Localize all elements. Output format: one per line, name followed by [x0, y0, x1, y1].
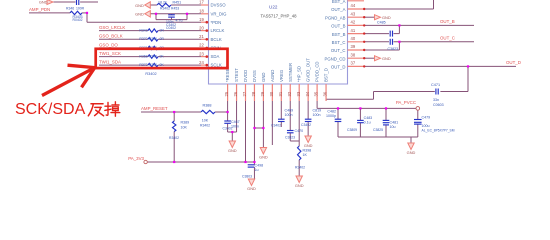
svg-text:DVSS: DVSS [252, 70, 257, 82]
svg-text:1000p: 1000p [326, 114, 336, 118]
svg-text:TAS5717_PHP_48: TAS5717_PHP_48 [261, 13, 298, 18]
svg-text:PA_3V3: PA_3V3 [128, 156, 144, 161]
svg-text:*HP_SD: *HP_SD [297, 66, 302, 82]
svg-text:4.7u: 4.7u [176, 19, 183, 23]
svg-text:AGND: AGND [270, 70, 275, 82]
svg-text:LRCLK: LRCLK [211, 28, 225, 33]
svg-text:AL_EC_8P5X7P7_SM: AL_EC_8P5X7P7_SM [422, 129, 455, 133]
svg-text:C469: C469 [285, 109, 294, 113]
svg-text:C0402: C0402 [166, 26, 176, 30]
svg-text:OUT_D: OUT_D [506, 60, 521, 65]
svg-text:R3402: R3402 [145, 72, 156, 76]
svg-text:R3402: R3402 [200, 123, 210, 127]
svg-text:33: 33 [296, 91, 301, 96]
svg-text:18: 18 [199, 9, 204, 14]
svg-text:34: 34 [305, 91, 310, 96]
svg-text:GSO_DO: GSO_DO [99, 42, 118, 47]
svg-text:AMP_RESET: AMP_RESET [141, 106, 168, 111]
svg-text:10K: 10K [202, 118, 209, 122]
svg-text:C0603: C0603 [433, 103, 444, 107]
svg-text:43: 43 [351, 11, 356, 16]
svg-text:17: 17 [199, 0, 204, 5]
svg-text:OUT_B: OUT_B [331, 24, 345, 29]
svg-text:32: 32 [287, 91, 292, 96]
svg-text:100R: 100R [76, 7, 85, 11]
svg-text:C482: C482 [327, 110, 336, 114]
svg-text:19: 19 [199, 17, 204, 22]
svg-text:1u: 1u [255, 168, 259, 172]
svg-text:GND: GND [135, 11, 144, 16]
svg-text:SDA: SDA [211, 54, 220, 59]
svg-text:R3402: R3402 [160, 6, 170, 10]
svg-text:R346: R346 [66, 7, 74, 11]
svg-text:SSTIMER: SSTIMER [288, 63, 293, 82]
svg-text:STEST: STEST [234, 68, 239, 82]
svg-text:R0402: R0402 [73, 18, 83, 22]
svg-text:C3402: C3402 [223, 127, 233, 131]
svg-text:R388: R388 [202, 104, 211, 108]
svg-text:1K: 1K [303, 153, 308, 157]
svg-text:33n: 33n [433, 98, 439, 102]
svg-text:22: 22 [199, 43, 204, 48]
svg-text:OUT_D: OUT_D [331, 65, 346, 70]
svg-text:0R: 0R [160, 37, 165, 41]
svg-text:GND: GND [382, 56, 391, 61]
svg-text:R372: R372 [139, 63, 147, 67]
svg-text:23: 23 [199, 51, 204, 56]
svg-text:30: 30 [269, 91, 274, 96]
svg-text:C498: C498 [255, 163, 264, 167]
svg-text:44: 44 [351, 3, 356, 8]
svg-text:24: 24 [199, 60, 204, 65]
svg-text:R389: R389 [181, 121, 190, 125]
svg-text:0K: 0K [160, 55, 165, 59]
svg-text:C470: C470 [295, 129, 304, 133]
svg-text:GSO_BCLK: GSO_BCLK [99, 34, 123, 39]
svg-text:36: 36 [323, 91, 328, 96]
svg-text:GND: GND [261, 72, 266, 82]
svg-text:C819: C819 [313, 109, 322, 113]
svg-text:GND: GND [304, 143, 313, 148]
svg-text:18.2k: 18.2k [158, 0, 167, 4]
svg-text:R370: R370 [139, 37, 147, 41]
svg-text:GSO_LRCLK: GSO_LRCLK [99, 25, 125, 30]
svg-text:C3809: C3809 [347, 128, 357, 132]
svg-text:C479: C479 [422, 115, 431, 119]
svg-text:R340: R340 [149, 63, 157, 67]
svg-text:C485: C485 [377, 21, 386, 25]
svg-text:R453: R453 [171, 6, 179, 10]
svg-text:R451: R451 [173, 0, 182, 4]
svg-text:GND: GND [382, 15, 391, 20]
svg-text:100n: 100n [285, 113, 293, 117]
svg-text:20: 20 [199, 25, 204, 30]
svg-text:100n: 100n [313, 113, 321, 117]
svg-text:PGND_CD: PGND_CD [324, 56, 345, 61]
svg-text:GND: GND [228, 148, 237, 153]
svg-text:10u: 10u [390, 125, 396, 129]
svg-text:*PDN: *PDN [211, 20, 222, 25]
svg-text:GND: GND [259, 155, 268, 160]
svg-text:29: 29 [260, 91, 265, 96]
svg-text:R398: R398 [303, 148, 312, 152]
svg-text:PGND_AB: PGND_AB [325, 15, 346, 20]
svg-text:39: 39 [351, 44, 356, 49]
svg-text:BST_C: BST_C [332, 40, 346, 45]
svg-text:C3402: C3402 [271, 123, 281, 127]
svg-text:R3402: R3402 [295, 166, 305, 170]
svg-text:41: 41 [351, 28, 356, 33]
svg-text:R368: R368 [139, 55, 147, 59]
svg-text:21: 21 [199, 34, 204, 39]
svg-text:27: 27 [242, 91, 247, 96]
svg-text:DVSSO: DVSSO [211, 3, 227, 8]
svg-text:GND: GND [135, 3, 144, 8]
svg-text:37: 37 [351, 61, 356, 66]
svg-text:C3402: C3402 [301, 123, 311, 127]
svg-text:VR_DIG: VR_DIG [211, 11, 228, 16]
svg-text:VREG: VREG [279, 69, 284, 82]
svg-text:R343: R343 [139, 29, 147, 33]
svg-text:BST_A: BST_A [332, 0, 346, 4]
svg-text:OUT_C: OUT_C [440, 36, 455, 41]
svg-text:GND: GND [295, 183, 304, 188]
svg-text:U22: U22 [269, 4, 278, 9]
svg-text:OUT_C: OUT_C [331, 48, 346, 53]
svg-text:DVDD: DVDD [243, 70, 248, 82]
svg-text:BCLK: BCLK [211, 37, 222, 42]
svg-text:R3402: R3402 [169, 136, 179, 140]
svg-text:GND: GND [247, 186, 256, 191]
svg-text:PVDD_CD: PVDD_CD [315, 61, 320, 82]
svg-text:TWI1_SDA: TWI1_SDA [99, 60, 121, 65]
svg-text:OUT_B: OUT_B [440, 19, 455, 24]
svg-text:0.1u: 0.1u [364, 121, 371, 125]
svg-text:31: 31 [278, 91, 283, 96]
svg-text:BST_D: BST_D [324, 68, 329, 82]
svg-text:C3823: C3823 [388, 47, 399, 51]
svg-text:100u: 100u [422, 124, 430, 128]
svg-text:C3823: C3823 [285, 135, 295, 139]
svg-text:0R: 0R [160, 29, 165, 33]
svg-text:C481: C481 [390, 120, 399, 124]
svg-text:R340: R340 [149, 55, 157, 59]
svg-text:TWI1_SCK: TWI1_SCK [99, 51, 121, 56]
svg-text:40: 40 [351, 36, 356, 41]
svg-text:OUT_A: OUT_A [331, 7, 345, 12]
svg-text:C471: C471 [431, 83, 440, 87]
svg-text:AMP_PDN: AMP_PDN [29, 7, 50, 12]
svg-text:BST_B: BST_B [332, 32, 346, 37]
svg-text:GND: GND [39, 0, 48, 5]
svg-text:GND: GND [407, 150, 416, 155]
svg-text:SCK/SDA: SCK/SDA [15, 101, 86, 118]
svg-text:R340: R340 [149, 37, 157, 41]
svg-text:25: 25 [224, 91, 229, 96]
svg-text:C467: C467 [231, 120, 240, 124]
svg-text:28: 28 [251, 91, 256, 96]
svg-text:C3803: C3803 [242, 175, 252, 179]
svg-text:42: 42 [351, 20, 356, 25]
svg-text:35: 35 [314, 91, 319, 96]
svg-text:GVDD_OUT: GVDD_OUT [306, 58, 311, 82]
svg-text:38: 38 [351, 52, 356, 57]
svg-text:0K: 0K [160, 63, 165, 67]
svg-text:10K: 10K [181, 125, 188, 129]
svg-text:C483: C483 [364, 116, 373, 120]
svg-text:PA_PVCC: PA_PVCC [396, 100, 416, 105]
svg-text:26: 26 [233, 91, 238, 96]
svg-text:C3825: C3825 [373, 128, 383, 132]
